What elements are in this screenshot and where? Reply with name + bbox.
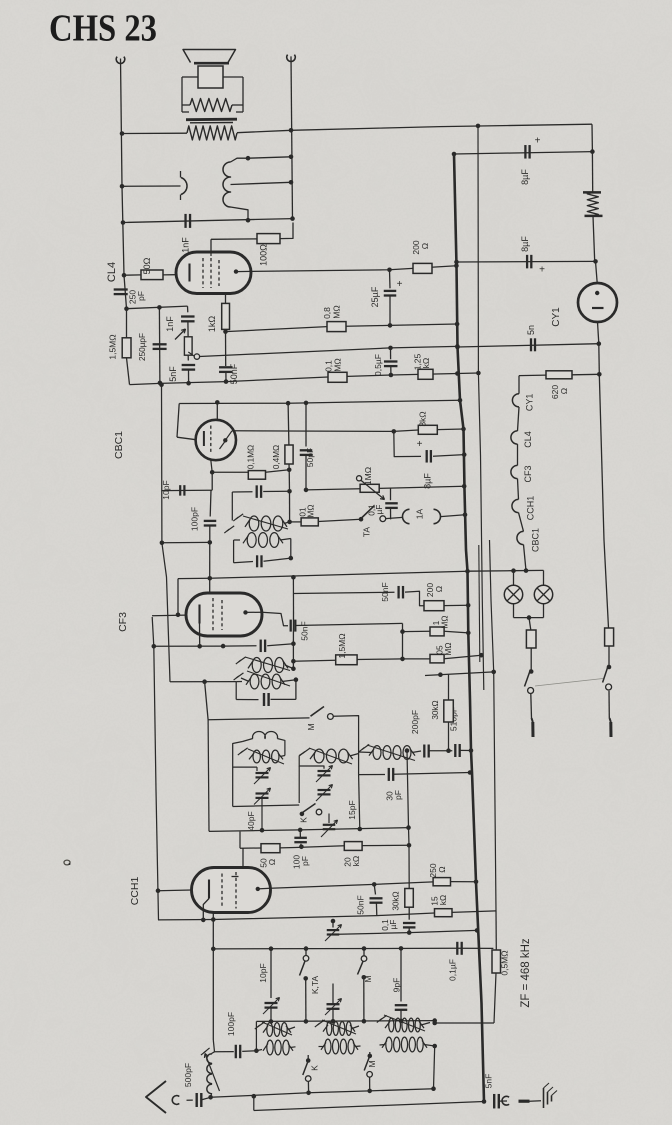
- svg-text:250µpF: 250µpF: [138, 333, 147, 361]
- svg-text:CHS 23: CHS 23: [49, 7, 157, 49]
- svg-text:Ω: Ω: [420, 243, 430, 249]
- svg-text:1,5MΩ: 1,5MΩ: [108, 334, 118, 359]
- svg-text:10pF: 10pF: [161, 480, 171, 499]
- svg-text:3kΩ: 3kΩ: [418, 411, 428, 426]
- svg-text:K,TA: K,TA: [310, 976, 320, 995]
- svg-text:0,4MΩ: 0,4MΩ: [272, 445, 281, 469]
- svg-text:kΩ: kΩ: [439, 895, 448, 905]
- svg-text:pF: pF: [300, 856, 310, 866]
- svg-text:0,5µF: 0,5µF: [373, 354, 383, 376]
- svg-text:30kΩ: 30kΩ: [392, 891, 401, 910]
- svg-text:1nF: 1nF: [181, 237, 191, 253]
- svg-text:CBC1: CBC1: [531, 528, 541, 552]
- svg-text:5nF: 5nF: [484, 1074, 494, 1089]
- svg-text:CF3: CF3: [523, 465, 533, 482]
- svg-text:0,1MΩ: 0,1MΩ: [247, 445, 256, 469]
- svg-text:100Ω: 100Ω: [259, 244, 269, 266]
- svg-text:MΩ: MΩ: [332, 305, 342, 318]
- svg-text:40pF: 40pF: [246, 811, 256, 830]
- svg-text:M: M: [363, 975, 373, 982]
- svg-text:CF3: CF3: [117, 612, 129, 632]
- svg-text:25µF: 25µF: [370, 286, 380, 307]
- svg-text:MΩ: MΩ: [441, 616, 450, 629]
- svg-text:Ω: Ω: [559, 388, 569, 394]
- svg-text:8µF: 8µF: [520, 169, 530, 185]
- svg-text:Ω: Ω: [434, 586, 444, 592]
- svg-text:15pF: 15pF: [347, 800, 357, 819]
- svg-text:kΩ: kΩ: [351, 856, 361, 867]
- svg-text:0,5MΩ: 0,5MΩ: [500, 950, 510, 975]
- svg-text:0,1µF: 0,1µF: [448, 959, 458, 981]
- svg-text:Ω: Ω: [267, 859, 277, 865]
- svg-text:pF: pF: [136, 291, 146, 301]
- svg-text:0,8: 0,8: [322, 307, 332, 319]
- svg-text:Ω: Ω: [437, 866, 447, 872]
- svg-text:M: M: [306, 723, 316, 730]
- svg-text:M: M: [367, 1060, 377, 1067]
- svg-text:1MΩ: 1MΩ: [363, 467, 373, 485]
- svg-text:10pF: 10pF: [258, 963, 268, 982]
- svg-text:K: K: [310, 1065, 320, 1071]
- svg-text:50pF: 50pF: [305, 448, 315, 467]
- svg-text:CY1: CY1: [525, 394, 535, 412]
- svg-text:100pF: 100pF: [190, 507, 200, 531]
- svg-text:+: +: [417, 439, 423, 450]
- svg-text:+: +: [539, 265, 545, 276]
- svg-text:pF: pF: [393, 790, 403, 800]
- svg-text:500pF: 500pF: [183, 1063, 193, 1087]
- svg-text:8µF: 8µF: [520, 236, 530, 252]
- svg-text:CY1: CY1: [551, 307, 562, 327]
- svg-text:1nF: 1nF: [165, 316, 175, 332]
- svg-text:50Ω: 50Ω: [142, 257, 152, 274]
- svg-text:CL4: CL4: [523, 431, 533, 448]
- svg-text:CL4: CL4: [106, 262, 118, 282]
- svg-text:1,5MΩ: 1,5MΩ: [337, 633, 347, 658]
- svg-text:9pF: 9pF: [392, 978, 402, 993]
- svg-text:ZF = 468 kHz: ZF = 468 kHz: [520, 938, 532, 1008]
- svg-text:200pF: 200pF: [410, 710, 420, 734]
- svg-text:50nF: 50nF: [300, 621, 310, 640]
- svg-text:100pF: 100pF: [226, 1012, 236, 1036]
- svg-text:MΩ: MΩ: [333, 358, 343, 371]
- svg-text:30kΩ: 30kΩ: [431, 700, 440, 719]
- svg-text:MΩ: MΩ: [444, 643, 453, 656]
- svg-text:CBC1: CBC1: [113, 431, 125, 459]
- svg-text:8µF: 8µF: [423, 473, 433, 489]
- svg-text:µF: µF: [389, 920, 398, 930]
- svg-text:CCH1: CCH1: [526, 496, 536, 521]
- svg-text:MΩ: MΩ: [307, 505, 316, 518]
- svg-text:kΩ: kΩ: [421, 358, 431, 369]
- svg-text:50nF: 50nF: [356, 895, 366, 914]
- svg-text:1A: 1A: [415, 508, 425, 519]
- svg-text:K: K: [299, 817, 309, 823]
- svg-text:5nF: 5nF: [168, 366, 178, 382]
- svg-text:+: +: [397, 279, 403, 290]
- svg-text:TA: TA: [362, 527, 372, 538]
- svg-text:µF: µF: [375, 505, 384, 515]
- svg-text:50nF: 50nF: [380, 582, 390, 601]
- svg-text:+: +: [535, 136, 541, 147]
- svg-text:CCH1: CCH1: [129, 877, 141, 906]
- svg-text:1kΩ: 1kΩ: [207, 316, 217, 333]
- svg-text:5n: 5n: [526, 325, 536, 335]
